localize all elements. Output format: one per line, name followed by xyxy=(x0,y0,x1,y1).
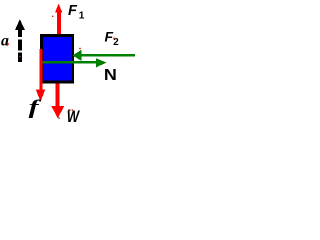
force arrow F1 (up, red) shaft xyxy=(57,12,61,34)
acceleration dashed arrow shaft dash 2 xyxy=(18,39,22,50)
normal force arrow N head xyxy=(96,58,107,67)
label f xyxy=(29,95,42,118)
stray red pixel near a xyxy=(7,43,8,44)
stray red pixel near F1 xyxy=(52,16,53,17)
svg-text:F: F xyxy=(105,28,114,44)
svg-text:1: 1 xyxy=(79,11,85,22)
background xyxy=(0,0,135,125)
weight arrow W head xyxy=(51,106,64,118)
friction arrow f head xyxy=(36,90,45,102)
label F1 xyxy=(68,3,85,22)
acceleration dashed arrow head xyxy=(15,19,25,30)
force arrow F2 head xyxy=(73,50,82,61)
acceleration dashed arrow shaft dash 1 xyxy=(18,30,22,37)
box blue fill xyxy=(43,37,72,81)
stray red pixel near F2 head xyxy=(79,48,81,49)
svg-text:N: N xyxy=(104,67,117,84)
black pixel below W arrow tip xyxy=(58,118,59,119)
red artifact on dash 3 xyxy=(19,56,20,57)
label F2 xyxy=(105,28,120,48)
red artifact on subscript 2 xyxy=(113,38,115,39)
friction arrow f (down, red) shaft xyxy=(40,49,43,91)
svg-text:W: W xyxy=(67,107,80,125)
normal force arrow N (right, green) shaft xyxy=(43,61,98,64)
svg-text:F: F xyxy=(68,3,78,19)
acceleration dashed arrow shaft dash 3 xyxy=(18,53,22,63)
box (object) black border xyxy=(40,34,74,84)
force arrow F1 head xyxy=(55,4,62,13)
red artifact on W top xyxy=(68,109,70,111)
svg-text:a: a xyxy=(1,33,9,50)
weight arrow W (down, red) shaft xyxy=(56,84,60,108)
force arrow F2 (left, green) shaft xyxy=(80,54,135,57)
